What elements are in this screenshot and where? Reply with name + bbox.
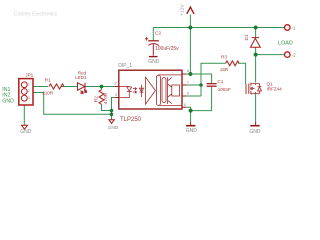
svg-text:Codrey Electronics: Codrey Electronics (14, 12, 58, 18)
svg-text:GND: GND (2, 98, 14, 104)
svg-text:GND: GND (148, 59, 160, 65)
svg-text:LED1: LED1 (75, 75, 87, 80)
svg-text:GND: GND (186, 128, 198, 134)
svg-text:GND: GND (108, 125, 119, 131)
svg-text:R3: R3 (221, 55, 227, 60)
svg-text:7: 7 (187, 80, 190, 85)
svg-text:15R: 15R (220, 67, 229, 72)
svg-text:100nF: 100nF (218, 87, 231, 92)
svg-text:R1: R1 (45, 78, 51, 83)
svg-text:100uF/25v: 100uF/25v (155, 46, 179, 52)
svg-text:470R: 470R (103, 92, 109, 104)
svg-text:-2: -2 (291, 53, 296, 59)
svg-text:2: 2 (115, 80, 118, 85)
svg-text:6: 6 (187, 91, 190, 96)
svg-text:GND: GND (20, 129, 32, 135)
svg-text:LOAD: LOAD (278, 40, 293, 46)
svg-text:JP1: JP1 (25, 73, 33, 78)
svg-text:R2: R2 (93, 96, 99, 102)
svg-text:C2: C2 (155, 30, 161, 36)
svg-text:DIP_1: DIP_1 (118, 63, 132, 69)
svg-text:+12V: +12V (180, 4, 186, 16)
svg-text:3: 3 (115, 92, 118, 97)
svg-text:D1: D1 (244, 34, 250, 40)
svg-text:-1: -1 (291, 26, 296, 32)
svg-text:2: 2 (28, 89, 30, 93)
svg-text:1: 1 (28, 82, 30, 86)
svg-text:TLP250: TLP250 (120, 117, 142, 123)
svg-text:C1: C1 (217, 79, 223, 84)
svg-text:3: 3 (28, 96, 30, 100)
svg-text:210R: 210R (42, 91, 54, 96)
svg-text:5: 5 (184, 102, 187, 107)
svg-text:GND: GND (249, 129, 261, 135)
svg-text:IRFZ44: IRFZ44 (267, 87, 283, 92)
